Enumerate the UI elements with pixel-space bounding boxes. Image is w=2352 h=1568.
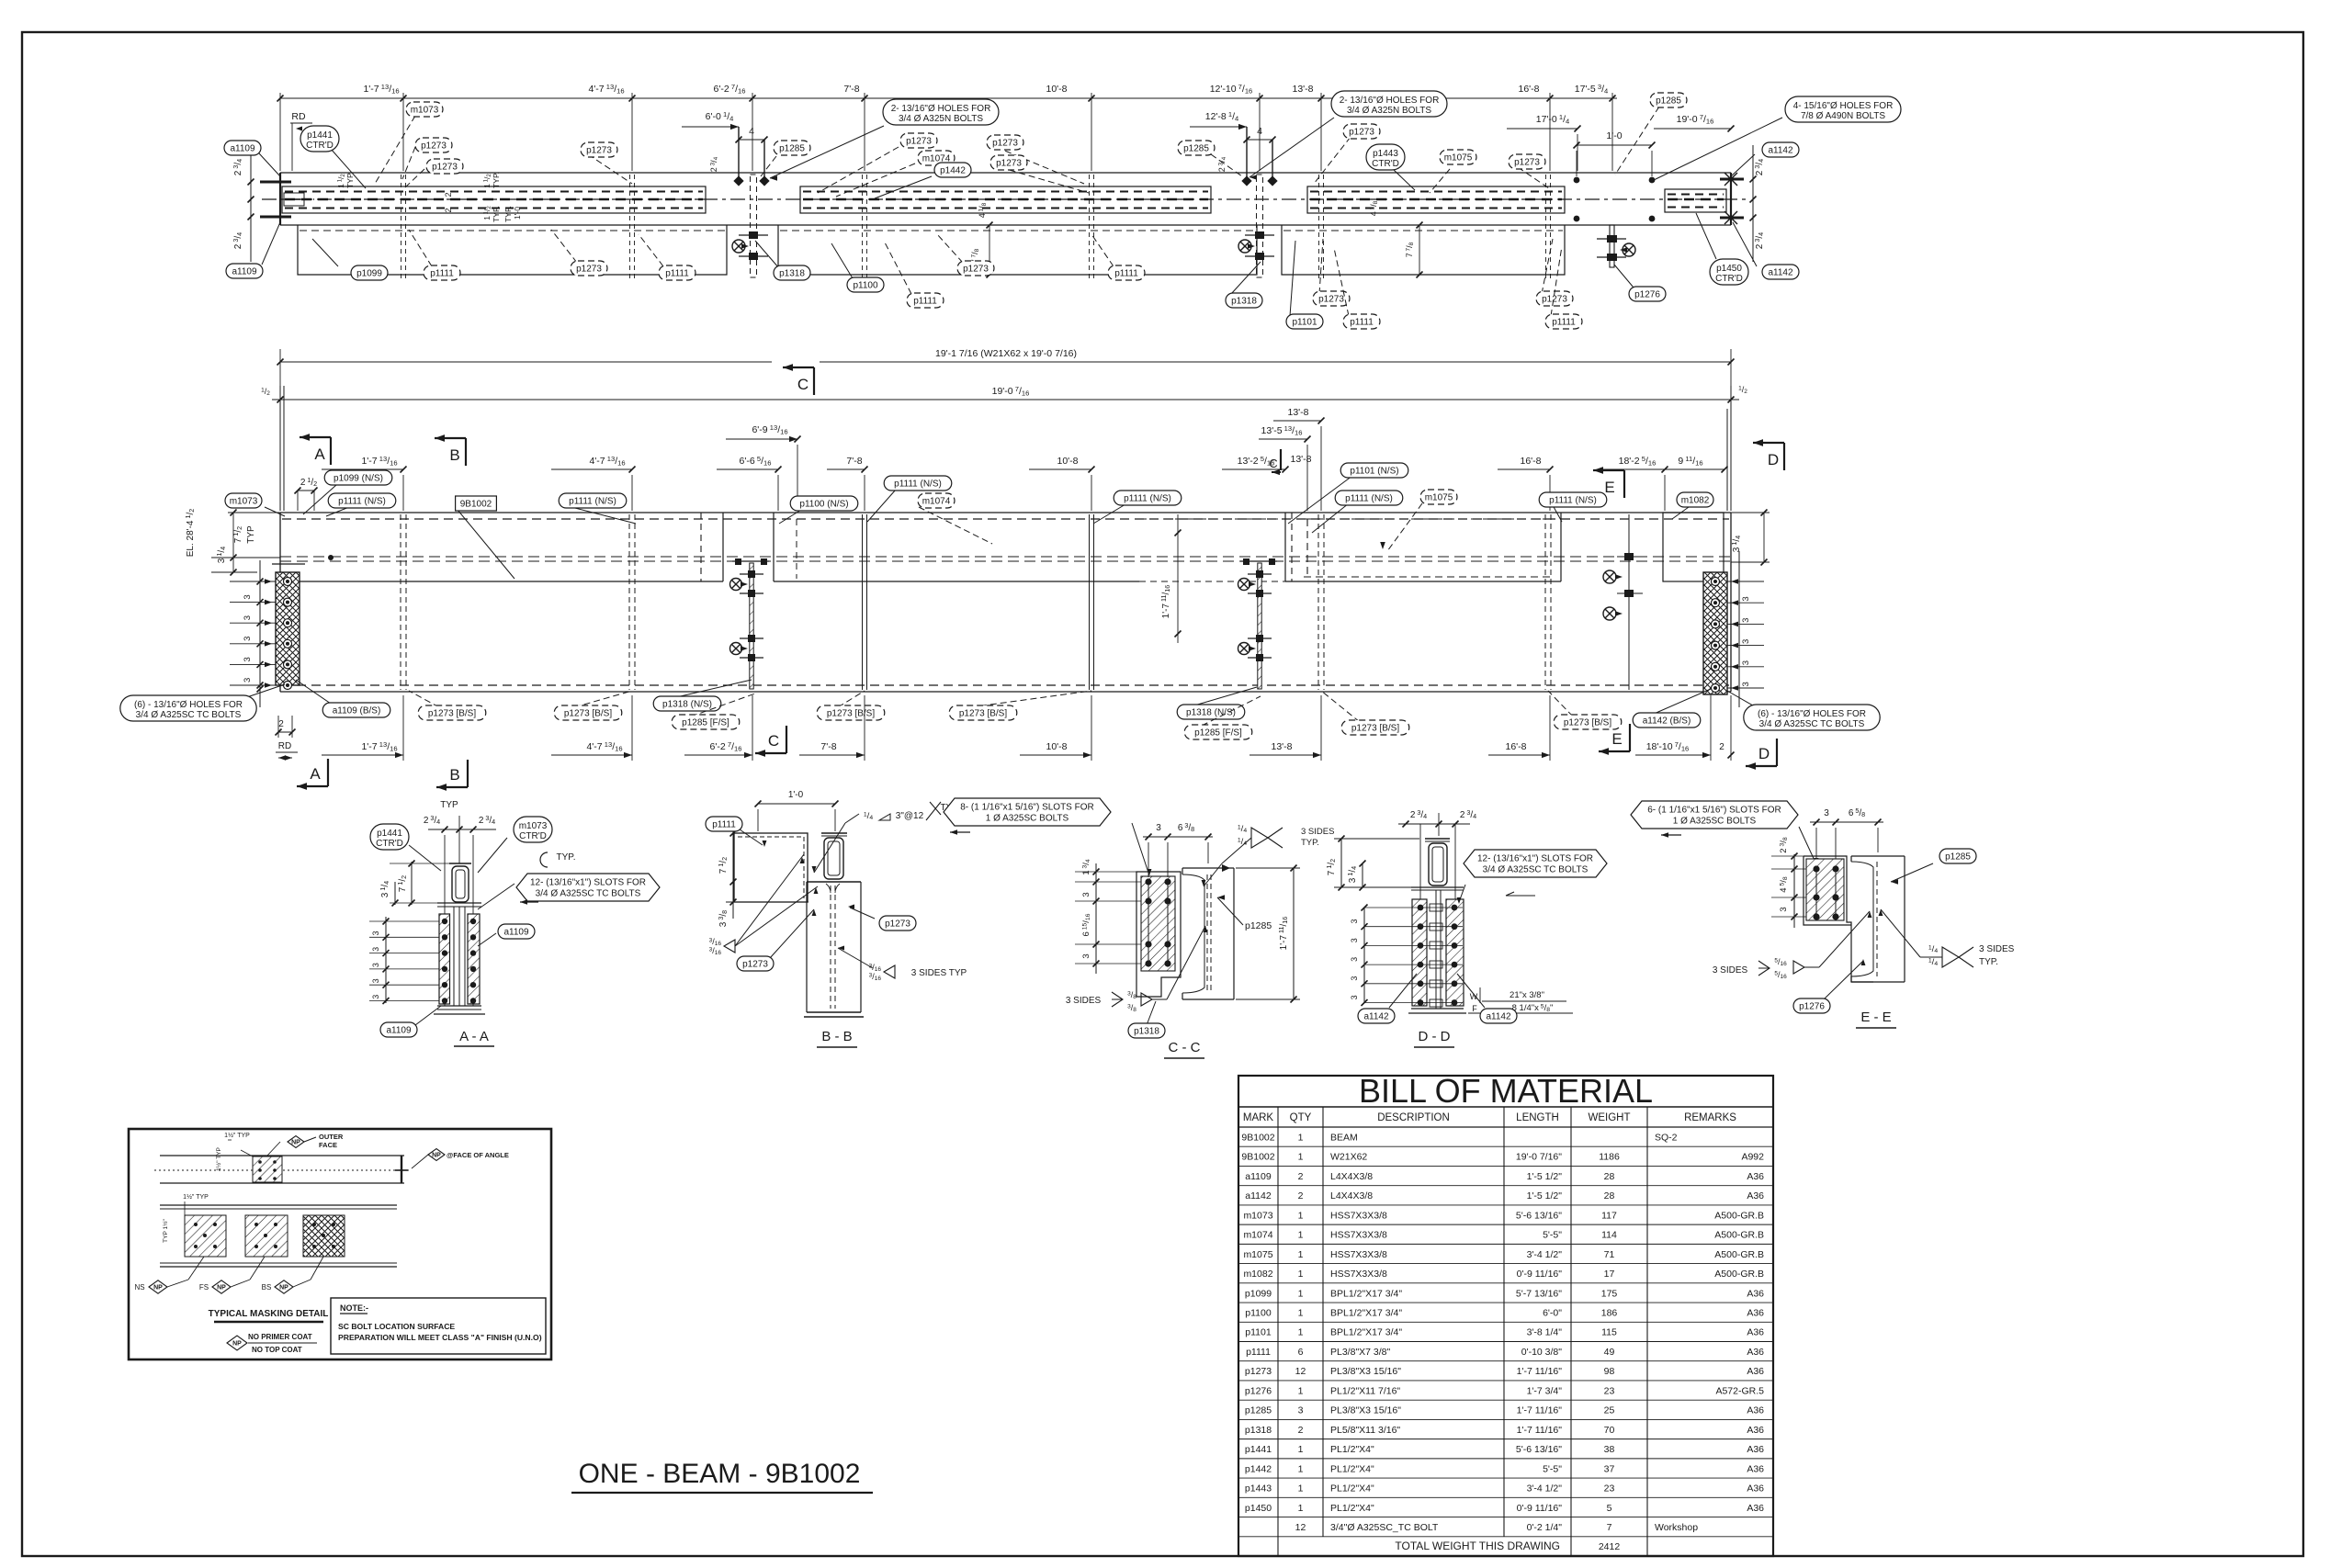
svg-text:B - B: B - B [821,1029,852,1044]
section A-A HSS tube m1073 with cap [449,863,471,864]
svg-text:0'-9 11/16": 0'-9 11/16" [1517,1269,1563,1280]
section A-A left dim col [411,862,413,905]
plan plate p1450 centred near right end [1665,189,1726,212]
svg-text:A36: A36 [1747,1190,1764,1201]
svg-text:17'-5 3/4: 17'-5 3/4 [1575,83,1609,95]
svg-text:3: 3 [1350,938,1359,942]
svg-text:3/4 Ø A325SC TC BOLTS: 3/4 Ø A325SC TC BOLTS [536,889,641,899]
svg-text:1: 1 [1298,1269,1304,1280]
svg-text:HSS7X3X3/8: HSS7X3X3/8 [1330,1230,1387,1241]
svg-text:5'-5": 5'-5" [1543,1463,1562,1474]
elevation beam web centerline hidden [280,556,1731,558]
svg-text:D - D: D - D [1419,1029,1451,1044]
svg-text:3/4 Ø A325SC TC BOLTS: 3/4 Ø A325SC TC BOLTS [1483,865,1589,875]
svg-text:0'-2 1/4": 0'-2 1/4" [1527,1522,1563,1533]
svg-text:12'-8 1/4: 12'-8 1/4 [1205,110,1239,122]
svg-text:3/4 Ø A325N BOLTS: 3/4 Ø A325N BOLTS [1347,106,1431,116]
svg-text:a1109: a1109 [230,144,255,154]
svg-text:p1441: p1441 [1245,1444,1272,1455]
svg-text:3: 3 [1741,682,1751,686]
svg-text:4- 15/16"Ø HOLES FOR: 4- 15/16"Ø HOLES FOR [1793,101,1894,111]
plan label p1273 far right dashed [1518,167,1549,188]
elevation left end plate a1109 hatched [276,572,300,685]
svg-text:16'-8: 16'-8 [1520,456,1541,467]
section E-E bolts 6 [1813,865,1819,872]
svg-text:PL3/8"X7 3/8": PL3/8"X7 3/8" [1330,1347,1391,1358]
section C-C hatched plate [1141,876,1175,971]
plan lower band plate p1099 [298,225,727,275]
svg-text:A36: A36 [1747,1503,1764,1514]
svg-text:3: 3 [243,637,253,641]
section A-A beam top flange [437,902,481,904]
svg-text:a1142: a1142 [1245,1190,1272,1201]
svg-text:p1285 [F/S]: p1285 [F/S] [1194,728,1242,739]
svg-text:16'-8: 16'-8 [1505,741,1526,752]
plan dimension 19ft right [1654,128,1731,130]
svg-text:4: 4 [749,126,754,137]
svg-text:3: 3 [1779,907,1789,911]
svg-text:37: 37 [1604,1463,1615,1474]
svg-text:A36: A36 [1747,1327,1764,1338]
plan label p1443 CTRD [1393,169,1415,190]
plan callout 2 holes A325N right [1249,118,1334,177]
svg-text:p1111: p1111 [1114,269,1138,279]
plan label p1285 right dashed [1211,154,1242,176]
section B-B label p1273 left [770,909,814,958]
svg-text:TYP.: TYP. [503,206,513,222]
svg-text:TOTAL WEIGHT THIS DRAWING: TOTAL WEIGHT THIS DRAWING [1395,1540,1560,1552]
svg-text:m1073: m1073 [1243,1210,1272,1221]
masking upper NP outer face [288,1136,304,1148]
elevation splice plate p1318 right [1258,563,1261,689]
plan label m1073 dashed [375,116,415,184]
svg-text:p1111 (N/S): p1111 (N/S) [894,479,942,490]
svg-text:0'-9 11/16": 0'-9 11/16" [1517,1503,1563,1514]
svg-text:NO PRIMER COAT: NO PRIMER COAT [248,1333,312,1341]
svg-text:RD: RD [278,741,291,751]
svg-text:7'-8: 7'-8 [846,456,862,467]
svg-text:LENGTH: LENGTH [1516,1112,1559,1123]
masking upper strip [160,1155,404,1156]
svg-text:p1273 [B/S]: p1273 [B/S] [564,709,612,719]
plan dimension 4 inch bolt gauge right [1247,139,1272,141]
svg-text:p1276: p1276 [1634,290,1660,300]
plan callout 4 holes A490N [1654,118,1782,180]
svg-text:5: 5 [1607,1503,1612,1514]
svg-text:L4X4X3/8: L4X4X3/8 [1330,1190,1373,1201]
svg-text:FACE: FACE [319,1141,337,1149]
section A-A label a1109 bottom [415,1006,441,1025]
plan dimension 12-8 1/4 right [1190,126,1247,128]
svg-text:A36: A36 [1747,1483,1764,1495]
svg-text:F: F [1472,1004,1477,1013]
svg-text:p1111: p1111 [1246,1347,1271,1358]
svg-text:3'-8 1/4": 3'-8 1/4" [1527,1327,1563,1338]
svg-text:D: D [1768,451,1779,468]
svg-text:2: 2 [1298,1190,1304,1201]
svg-text:C: C [797,376,808,393]
svg-text:p1442: p1442 [940,166,966,176]
svg-text:71: 71 [1604,1249,1615,1260]
elevation plate p1101 near side [1284,513,1286,581]
svg-text:p1276: p1276 [1245,1385,1272,1396]
svg-text:12: 12 [1295,1522,1306,1533]
elevation section marker C mid [1280,449,1282,470]
plan plate p1443 with hidden HSS m1075 [1307,186,1565,213]
elevation beam bottom flange [280,691,1731,693]
section A-A top dims 2-3/4 [428,829,496,830]
svg-text:BILL OF MATERIAL: BILL OF MATERIAL [1359,1072,1653,1110]
svg-text:17: 17 [1604,1269,1615,1280]
plan end plate ticks left [260,181,291,184]
svg-text:PL1/2"X4": PL1/2"X4" [1330,1483,1374,1495]
section D-D HSS tube with cap [1425,838,1450,840]
svg-text:NP: NP [432,1153,441,1159]
svg-text:a1109: a1109 [232,267,257,277]
svg-text:p1273: p1273 [576,265,602,275]
section C-C label p1318 [1147,1001,1156,1025]
svg-text:p1100 (N/S): p1100 (N/S) [799,500,848,510]
svg-text:p1273 [B/S]: p1273 [B/S] [827,709,875,719]
svg-text:1 Ø A325SC BOLTS: 1 Ø A325SC BOLTS [1673,817,1757,827]
svg-text:6'-0": 6'-0" [1543,1307,1562,1318]
svg-text:NO TOP COAT: NO TOP COAT [252,1346,302,1354]
svg-text:114: 114 [1601,1230,1617,1241]
svg-text:m1082: m1082 [1681,496,1710,506]
svg-text:E - E: E - E [1860,1010,1891,1025]
section A-A angle plates a1109 hatched [439,914,450,1004]
svg-text:3: 3 [243,678,253,682]
svg-text:p1285: p1285 [1945,852,1971,863]
svg-text:3: 3 [1081,953,1091,958]
svg-text:3: 3 [1350,919,1359,923]
svg-text:3: 3 [371,995,380,999]
svg-text:p1273: p1273 [432,163,458,173]
svg-text:7: 7 [1607,1522,1612,1533]
plan label a1109 top [259,153,280,176]
svg-text:p1111 (N/S): p1111 (N/S) [1345,494,1393,504]
masking NP legend [227,1336,247,1350]
svg-text:3: 3 [1298,1405,1304,1416]
svg-text:3: 3 [1741,596,1751,601]
elevation section marker C top [783,364,814,395]
plan label p1273 m1074 p1442 cluster [818,147,899,193]
section B-B dim 1-0 [758,803,835,805]
plan bolt diamonds left group [733,175,743,186]
svg-text:p1273: p1273 [992,139,1018,149]
plan label m1075 dashed [1430,169,1450,193]
svg-text:p1273: p1273 [963,265,989,275]
svg-text:p1285: p1285 [1245,920,1272,931]
svg-text:p1273 [B/S]: p1273 [B/S] [1564,718,1611,728]
svg-text:28: 28 [1604,1171,1615,1182]
section A-A label m1073 [478,838,507,873]
svg-text:3 SIDES: 3 SIDES [1713,965,1748,976]
svg-text:a1142: a1142 [1486,1012,1511,1022]
svg-text:a1109: a1109 [503,928,529,938]
svg-text:NP: NP [153,1285,163,1292]
svg-text:9B1002: 9B1002 [1241,1152,1274,1163]
svg-text:B: B [449,766,459,784]
svg-text:5'-6 13/16": 5'-6 13/16" [1516,1444,1562,1455]
svg-text:W: W [1470,992,1478,1001]
elevation section marker E mid [1593,469,1624,471]
svg-text:12- (13/16"x1") SLOTS FOR: 12- (13/16"x1") SLOTS FOR [1477,854,1593,864]
elevation dim 6-9 13/16 [726,438,797,440]
svg-text:2- 13/16"Ø HOLES FOR: 2- 13/16"Ø HOLES FOR [891,104,991,114]
svg-text:3/4"Ø A325SC_TC BOLT: 3/4"Ø A325SC_TC BOLT [1330,1522,1439,1533]
masking detail outer box [129,1129,551,1359]
plan beam centerline [262,198,1750,200]
svg-text:p1273 [B/S]: p1273 [B/S] [959,709,1007,719]
svg-text:A36: A36 [1747,1288,1764,1299]
svg-text:NP: NP [232,1341,242,1348]
svg-text:49: 49 [1604,1347,1615,1358]
svg-text:1: 1 [1298,1503,1304,1514]
section B-B plate p1111 flat [734,833,808,902]
section A-A label a1109 right [478,933,496,946]
svg-text:p1273: p1273 [742,960,768,970]
svg-text:@FACE OF ANGLE: @FACE OF ANGLE [447,1151,509,1159]
elevation plate p1100 near side [774,581,1139,582]
plan label p1273 dashed x2 left [402,147,415,179]
elevation bottom labels left callout 6 holes [239,684,285,700]
svg-text:DESCRIPTION: DESCRIPTION [1377,1112,1450,1123]
section E-E hatched plate [1806,859,1844,920]
svg-text:HSS7X3X3/8: HSS7X3X3/8 [1330,1249,1387,1260]
plan label a1109 bottom [262,222,280,265]
svg-text:1'-7 3/4": 1'-7 3/4" [1527,1385,1563,1396]
svg-text:38: 38 [1604,1444,1615,1455]
svg-text:2: 2 [278,719,284,729]
svg-text:2412: 2412 [1599,1541,1621,1552]
svg-text:PL1/2"X4": PL1/2"X4" [1330,1444,1374,1455]
svg-text:A36: A36 [1747,1366,1764,1377]
svg-text:TYP.: TYP. [1301,838,1319,848]
section D-D beam top flange [1411,886,1464,888]
svg-text:p1111: p1111 [665,269,689,279]
svg-text:175: 175 [1601,1288,1618,1299]
svg-text:W21X62: W21X62 [1330,1152,1367,1163]
section A-A base plate lines [437,1005,481,1007]
svg-text:A: A [310,765,321,783]
section B-B weld 3 sides right [869,963,895,982]
elevation bottom label a1109 BS [296,680,331,704]
svg-text:3: 3 [371,931,380,935]
svg-text:3"@12: 3"@12 [896,811,924,821]
elevation right end plate bolt dims [1738,551,1740,707]
section E-E top dims [1810,821,1883,823]
plan left end 2-3/4 dims [250,145,252,262]
elevation hidden HSS m1074 dashed box [1139,518,1292,520]
svg-text:p1276: p1276 [1799,1002,1825,1012]
svg-text:5'-5": 5'-5" [1543,1230,1562,1241]
plan dimension 1ft-0 bolts [1577,144,1652,146]
svg-text:1½" TYP: 1½" TYP [215,1147,222,1171]
svg-text:3: 3 [1741,618,1751,623]
svg-text:1: 1 [1298,1444,1304,1455]
svg-text:3: 3 [1741,660,1751,665]
plan connection plate p1276 edge-on [1610,225,1614,267]
section B-B web hidden lines [830,886,831,1009]
section B-B label p1111 [740,829,763,845]
svg-text:ONE - BEAM - 9B1002: ONE - BEAM - 9B1002 [579,1459,861,1489]
svg-text:21"x 3/8": 21"x 3/8" [1510,990,1544,1000]
svg-text:10'-8: 10'-8 [1057,456,1078,467]
svg-text:TYP.: TYP. [492,172,501,188]
elevation plate m1082 box right [1663,513,1724,581]
svg-text:p1111 (N/S): p1111 (N/S) [338,497,386,507]
svg-text:p1111: p1111 [913,297,937,307]
plan callout 2 holes A325N left [770,126,884,178]
plan left end connector detail [284,193,304,206]
svg-text:p1442: p1442 [1245,1463,1272,1474]
svg-text:p1318 (N/S): p1318 (N/S) [662,700,712,710]
svg-text:p1318: p1318 [779,269,805,279]
BOM table outer frame [1238,1076,1773,1556]
svg-text:2: 2 [444,208,453,212]
svg-text:7'-8: 7'-8 [820,741,836,752]
svg-text:NP: NP [291,1140,300,1146]
svg-text:A36: A36 [1747,1425,1764,1436]
svg-text:PL1/2"X4": PL1/2"X4" [1330,1503,1374,1514]
svg-text:3: 3 [243,594,253,599]
svg-text:1: 1 [1298,1210,1304,1221]
section B-B HSS tube with cap [821,832,847,834]
BOM table header row [1238,1126,1773,1128]
svg-text:HSS7X3X3/8: HSS7X3X3/8 [1330,1210,1387,1221]
plan lower band plate p1101 [1282,225,1565,275]
section B-B slots hexagon [944,798,1111,826]
svg-text:p1273: p1273 [1245,1366,1272,1377]
section D-D bolt gauge lines [1419,824,1421,974]
svg-text:1'-5 1/2": 1'-5 1/2" [1527,1171,1563,1182]
svg-text:PL1/2"X4": PL1/2"X4" [1330,1463,1374,1474]
svg-text:(6) - 13/16"Ø HOLES FOR: (6) - 13/16"Ø HOLES FOR [1758,709,1866,719]
section E-E label p1285 [1891,863,1933,882]
section D-D small arrow mark [1506,892,1535,896]
svg-text:C: C [1269,457,1277,470]
elevation section marker D top [1753,439,1784,470]
svg-text:m1073: m1073 [411,106,439,116]
svg-text:p1099 (N/S): p1099 (N/S) [334,474,383,484]
svg-text:a1109: a1109 [1245,1171,1272,1182]
svg-text:A500-GR.B: A500-GR.B [1714,1269,1764,1280]
svg-text:E: E [1611,730,1622,748]
svg-text:3/4 Ø A325SC TC BOLTS: 3/4 Ø A325SC TC BOLTS [1759,719,1865,729]
svg-text:PL5/8"X11 3/16": PL5/8"X11 3/16" [1330,1425,1400,1436]
plan bolt diamonds right group [1241,175,1251,186]
section C-C beam section [1182,867,1234,869]
section D-D web verticals [1435,890,1437,1009]
svg-text:CTR'D: CTR'D [376,839,403,849]
svg-text:p1285: p1285 [1245,1405,1272,1416]
svg-text:NOTE:-: NOTE:- [340,1303,368,1313]
svg-text:p1450: p1450 [1716,264,1742,274]
svg-text:5'-7 13/16": 5'-7 13/16" [1516,1288,1562,1299]
plan beam top flange outline [280,172,1731,174]
svg-text:3: 3 [1350,976,1359,981]
plan label p1273 pair right-mid dashed [996,147,1084,184]
svg-text:A: A [314,446,325,463]
plan dimension 4 inch bolt gauge left [739,139,764,141]
section C-C left dim col [1095,863,1097,974]
svg-text:115: 115 [1601,1327,1617,1338]
svg-text:3: 3 [1350,995,1359,999]
svg-text:m1073: m1073 [230,497,258,507]
section E-E left dim col [1793,854,1795,928]
svg-text:TYP 1½": TYP 1½" [162,1218,169,1242]
section A-A bolts [442,919,447,924]
svg-text:1: 1 [1298,1230,1304,1241]
svg-text:NP: NP [217,1285,226,1292]
svg-text:p1285: p1285 [1183,144,1209,154]
elevation label m1073 left [225,493,262,508]
svg-text:186: 186 [1601,1307,1618,1318]
elevation overall dimension 19-1 7/16 [280,361,772,363]
svg-text:2- 13/16"Ø HOLES FOR: 2- 13/16"Ø HOLES FOR [1340,96,1440,106]
elevation hidden HSS m1075 dashed box [1304,518,1553,520]
svg-text:1½" TYP: 1½" TYP [183,1193,209,1201]
svg-text:3: 3 [243,657,253,661]
elevation plate p1111 solid pairs [862,514,864,690]
svg-text:13'-8: 13'-8 [1290,454,1311,465]
svg-text:1: 1 [1298,1249,1304,1260]
svg-text:p1273: p1273 [1349,128,1374,138]
svg-text:a1109: a1109 [386,1026,412,1036]
svg-text:p1318: p1318 [1231,297,1257,307]
plan label p1285 far right dashed [1615,107,1659,175]
svg-text:m1082: m1082 [1243,1269,1272,1280]
svg-text:2: 2 [1719,742,1724,752]
svg-text:3: 3 [371,947,380,952]
svg-text:a1142: a1142 [1363,1012,1389,1022]
masking note box [331,1298,546,1354]
svg-text:10'-8: 10'-8 [1046,741,1067,752]
svg-text:3 SIDES: 3 SIDES [1979,944,2015,954]
svg-text:28: 28 [1604,1190,1615,1201]
section D-D left dim col [1340,839,1342,887]
svg-text:3'-4 1/2": 3'-4 1/2" [1527,1249,1563,1260]
svg-text:10'-8: 10'-8 [1046,84,1067,95]
svg-text:C: C [768,732,779,750]
section B-B weld symbol left [709,937,735,956]
svg-text:25: 25 [1604,1405,1615,1416]
svg-text:m1074: m1074 [1243,1230,1272,1241]
svg-text:13'-8: 13'-8 [1292,84,1313,95]
svg-text:p1450: p1450 [1245,1503,1272,1514]
svg-text:a1142: a1142 [1768,268,1793,278]
masking upper NP face of angle [428,1149,445,1161]
svg-text:12- (13/16"x1") SLOTS FOR: 12- (13/16"x1") SLOTS FOR [530,878,646,888]
section B-B left dims [732,831,734,919]
svg-text:p1111 (N/S): p1111 (N/S) [1549,496,1597,506]
svg-text:p1101: p1101 [1245,1327,1272,1338]
svg-text:CTR'D: CTR'D [1715,274,1743,284]
masking NS FS BS leaders [188,1257,204,1280]
svg-text:FS: FS [199,1283,209,1292]
elevation splice plate p1318 left [750,563,753,689]
svg-text:E: E [1604,479,1614,496]
svg-text:CTR'D: CTR'D [519,831,547,841]
svg-text:Workshop: Workshop [1655,1522,1698,1533]
svg-text:TYP: TYP [246,525,256,544]
elevation bottom stiffener labels [409,691,439,707]
svg-text:6- (1 1/16"x1 5/16") SLOTS FOR: 6- (1 1/16"x1 5/16") SLOTS FOR [1647,806,1781,816]
svg-text:BPL1/2"X17 3/4": BPL1/2"X17 3/4" [1330,1327,1402,1338]
elevation label bubbles row left [303,485,336,514]
plan end plate ticks right [1720,178,1744,181]
